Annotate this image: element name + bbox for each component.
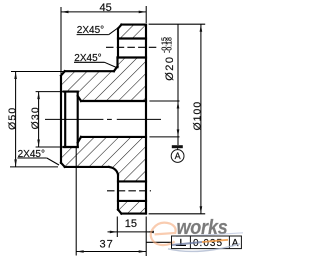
part outline: hub left face bbox=[61, 25, 146, 214]
e-works logo: faint upper ring edge bbox=[176, 233, 243, 237]
counterbore inner line bbox=[64, 92, 66, 147]
svg-text:37: 37 bbox=[100, 239, 114, 251]
chamfer label 2X45 middle bbox=[74, 53, 117, 68]
bolt hole top: upper edge bbox=[118, 37, 146, 39]
flange bottom edge bbox=[121, 213, 146, 215]
bolt hole bottom: lower edge bbox=[118, 200, 146, 202]
main centerline (axis) bbox=[45, 118, 161, 120]
bolt hole top: lower edge bbox=[118, 56, 147, 58]
hatch flange bottom block bbox=[118, 201, 146, 214]
flange bottom-left chamfer bbox=[118, 210, 121, 214]
dimension 45 extension left bbox=[61, 6, 146, 74]
dimension D100 bbox=[149, 24, 206, 214]
e-works logo: letter e bbox=[151, 223, 176, 245]
chamfer label 2X45 top bbox=[77, 25, 119, 36]
dimension D50 bbox=[10, 72, 64, 167]
bolt hole centerline top bbox=[106, 46, 159, 48]
flange left face (lower) bbox=[117, 175, 119, 210]
dimension 45 line bbox=[61, 11, 146, 13]
bore edge extension lower bbox=[149, 136, 179, 138]
hub bottom chamfer bbox=[61, 163, 65, 167]
dimension 37 bbox=[76, 148, 146, 256]
perpendicularity symbol bbox=[180, 239, 182, 246]
e-works logo: works text bbox=[177, 217, 228, 239]
bore entry chamfer upper bbox=[78, 96, 81, 101]
hub top edge bbox=[65, 70, 114, 72]
svg-text:Ø20: Ø20 bbox=[164, 56, 176, 81]
bore entry chamfer lower bbox=[78, 137, 81, 143]
bolt hole bottom: upper edge bbox=[118, 180, 146, 182]
svg-text:Ø100: Ø100 bbox=[191, 101, 203, 131]
flange left face (upper) bbox=[117, 29, 119, 58]
dimension 15 bbox=[108, 217, 155, 257]
dimension line bbox=[177, 24, 179, 145]
e-works logo: light orbit swoosh lower bbox=[168, 244, 240, 252]
flange right face bbox=[145, 25, 147, 214]
counterbore step face bbox=[77, 92, 79, 147]
chamfer label 2X45 bottom bbox=[17, 149, 59, 165]
svg-text:15: 15 bbox=[125, 218, 137, 230]
datum A symbol bbox=[172, 145, 183, 148]
e-works logo: orange swoosh over tolerance bbox=[202, 240, 228, 242]
svg-text:45: 45 bbox=[100, 2, 112, 14]
flange top-left chamfer bbox=[118, 25, 121, 29]
bore lower edge bbox=[81, 136, 146, 138]
bore upper edge bbox=[81, 100, 146, 102]
hub bottom edge bbox=[65, 166, 109, 168]
hub step chamfer top bbox=[114, 66, 118, 71]
svg-text:-0.18: -0.18 bbox=[166, 37, 173, 53]
feature control frame leader bbox=[146, 241, 171, 243]
svg-text:Ø50: Ø50 bbox=[7, 107, 19, 130]
svg-text:A: A bbox=[175, 151, 181, 161]
counterbore bottom edge bbox=[64, 146, 78, 148]
dimension 45 arrows bbox=[61, 11, 69, 14]
hatch flange top block bbox=[118, 25, 146, 39]
svg-text:A: A bbox=[232, 238, 239, 249]
dimension 45 extension right bbox=[145, 6, 147, 23]
bolt hole centerline bottom bbox=[107, 190, 151, 192]
flange top edge bbox=[121, 24, 146, 26]
dimension D30 bbox=[36, 92, 63, 147]
svg-text:Ø30: Ø30 bbox=[30, 106, 42, 129]
counterbore top edge bbox=[64, 91, 78, 93]
hub top chamfer bbox=[61, 71, 65, 75]
hub-to-flange fillet bottom bbox=[109, 167, 118, 175]
hub step riser top bbox=[116, 58, 118, 68]
feature control frame bbox=[172, 236, 242, 249]
bore edge extension upper bbox=[149, 100, 179, 102]
feature control frame fill bbox=[172, 236, 242, 249]
hatch hub upper + flange web upper bbox=[61, 58, 146, 102]
e-works logo: dark blue swoosh segment bbox=[172, 242, 202, 245]
dimension D20 with tolerance bbox=[149, 24, 179, 145]
hatch hub lower + flange web lower bbox=[61, 137, 146, 182]
